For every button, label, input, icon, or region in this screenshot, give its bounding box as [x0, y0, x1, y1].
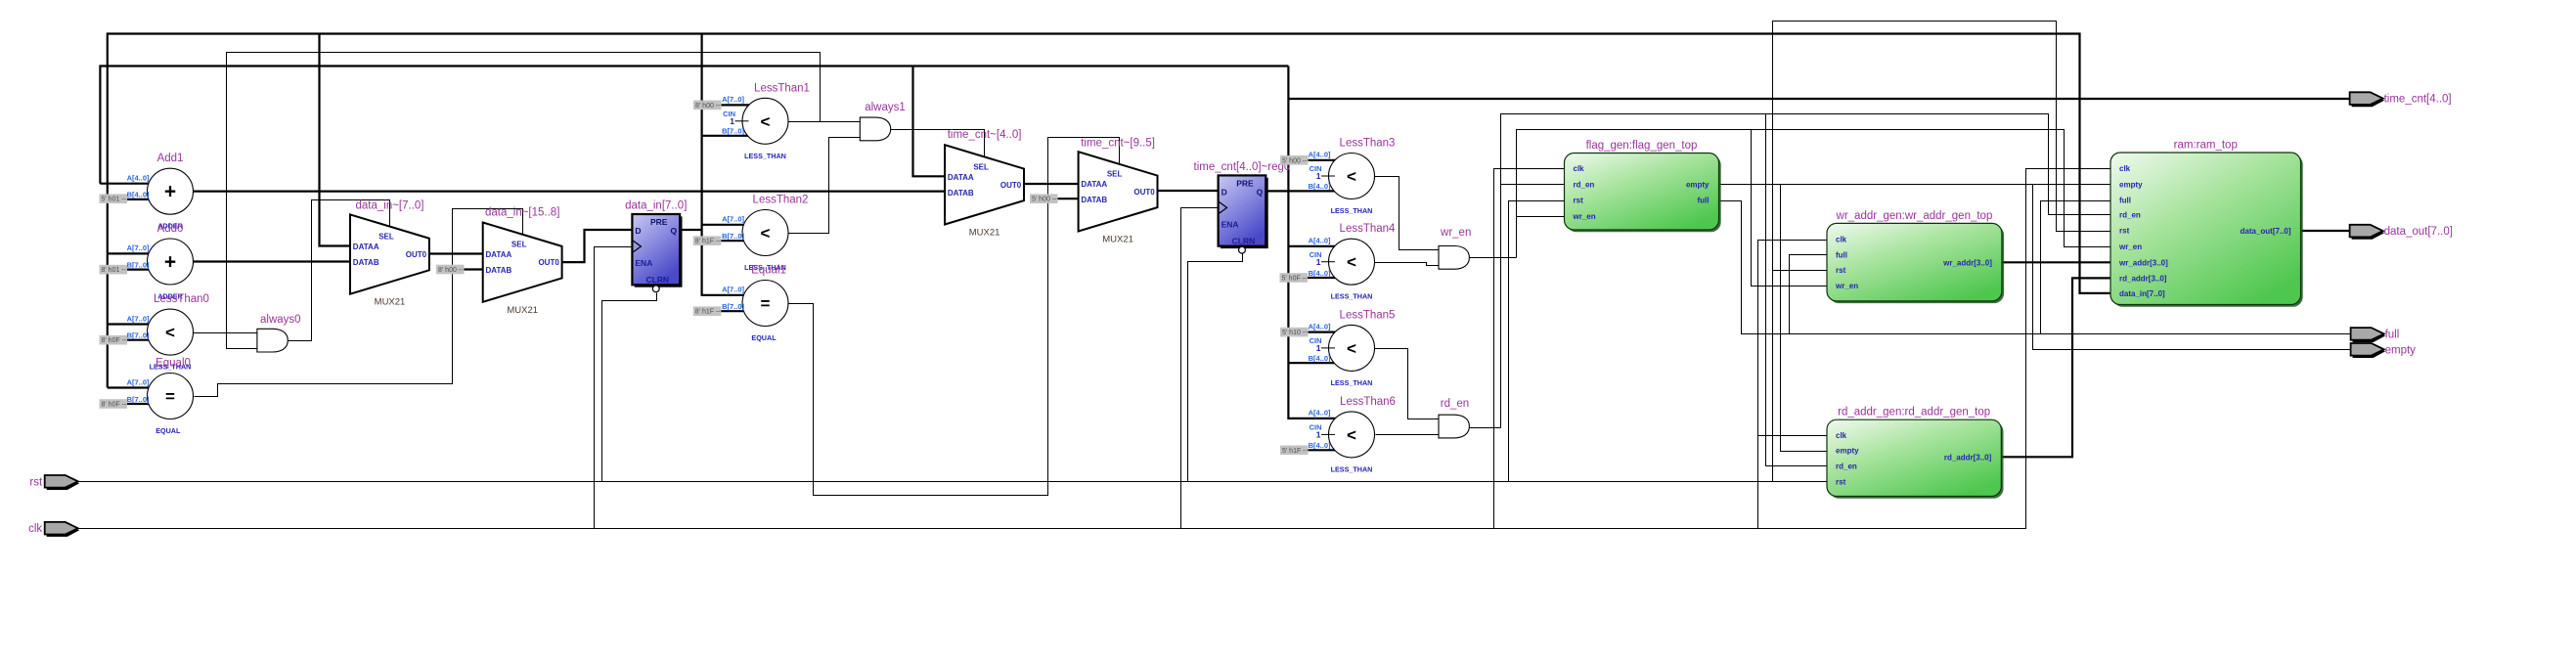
svg-text:LESS_THAN: LESS_THAN: [744, 152, 786, 160]
wire const 5h10 to LessThan5 A: [1308, 331, 1345, 333]
svg-text:A[4..0]: A[4..0]: [1309, 322, 1331, 330]
input pin rst: [29, 475, 79, 490]
wire wr_en bridge to ram wr_en: [1517, 130, 2111, 258]
svg-text:B[4..0]: B[4..0]: [1309, 269, 1331, 278]
wire LessThan5 out to rd_en gate input A: [1375, 349, 1440, 419]
svg-text:wr_addr_gen:wr_addr_gen_top: wr_addr_gen:wr_addr_gen_top: [1836, 210, 1993, 222]
wire const 5h00 to mux4 DATAB: [1057, 198, 1080, 199]
wire const 8h00 to mux2 DATAB: [464, 268, 484, 270]
svg-text:OUT0: OUT0: [1000, 181, 1022, 190]
wire rd_addr[3..0] bus to ram: [2002, 278, 2111, 457]
svg-text:data_in[7..0]: data_in[7..0]: [625, 200, 687, 212]
wire Equal0 out to mux2 SEL: [195, 209, 523, 397]
svg-text:5' h0F --: 5' h0F --: [1282, 276, 1309, 283]
svg-text:rst: rst: [1574, 197, 1584, 205]
svg-text:LESS_THAN: LESS_THAN: [1331, 206, 1373, 215]
svg-text:A[7..0]: A[7..0]: [722, 215, 744, 224]
svg-text:LessThan0: LessThan0: [154, 293, 209, 305]
svg-text:5' h1F --: 5' h1F --: [1282, 448, 1309, 455]
svg-text:LessThan3: LessThan3: [1340, 138, 1396, 150]
port labels LessThan5: [1309, 322, 1335, 363]
svg-text:<: <: [1347, 425, 1356, 444]
wire empty drop to rd_addr_gen empty: [1781, 185, 1828, 452]
svg-text:empty: empty: [1836, 447, 1859, 456]
svg-text:data_out[7..0]: data_out[7..0]: [2384, 226, 2453, 238]
constant 5h01 for Add1 B: [100, 194, 128, 203]
wire time_cnt to output pin: [1288, 98, 2350, 100]
svg-text:5' h00 --: 5' h00 --: [1032, 197, 1057, 203]
svg-text:5' h10 --: 5' h10 --: [1282, 330, 1308, 336]
wire clk trunk from input pin to ram clk: [79, 169, 2111, 529]
svg-text:PRE: PRE: [650, 217, 668, 227]
svg-text:clk: clk: [2119, 164, 2131, 173]
wire stub to LessThan1 B: [702, 135, 757, 137]
svg-text:ram:ram_top: ram:ram_top: [2174, 140, 2238, 152]
svg-text:A[7..0]: A[7..0]: [722, 95, 744, 104]
svg-text:PRE: PRE: [1236, 178, 1254, 188]
mux data_in~[15..8]: [483, 206, 562, 315]
wire mux2 OUT0 to data_in reg D: [562, 230, 633, 262]
svg-text:A[4..0]: A[4..0]: [1309, 409, 1331, 418]
comparator LessThan0: [148, 293, 209, 372]
svg-text:8' h0F --: 8' h0F --: [102, 402, 128, 409]
svg-text:LessThan6: LessThan6: [1340, 396, 1396, 408]
svg-text:1: 1: [1316, 257, 1321, 267]
svg-text:EQUAL: EQUAL: [751, 333, 777, 342]
wire flag_gen full to output pin full: [1720, 201, 2351, 334]
svg-text:B[4..0]: B[4..0]: [1309, 441, 1331, 450]
svg-text:rd_addr[3..0]: rd_addr[3..0]: [2119, 274, 2167, 283]
svg-text:ENA: ENA: [1221, 219, 1239, 229]
svg-text:<: <: [1347, 339, 1356, 358]
wire const 8h01 to Add0 B: [126, 269, 162, 271]
svg-text:rd_en: rd_en: [2119, 210, 2141, 219]
svg-text:DATAB: DATAB: [948, 189, 974, 198]
svg-text:Add0: Add0: [157, 223, 184, 235]
svg-text:rd_addr[3..0]: rd_addr[3..0]: [1944, 453, 1992, 462]
svg-text:Q: Q: [1257, 187, 1264, 197]
wire const 5h1F to LessThan6 B: [1308, 449, 1345, 451]
svg-text:rd_en: rd_en: [1441, 398, 1469, 410]
wire LessThan2 out to always1 input B: [789, 138, 861, 234]
wire stub to LessThan4 A: [1288, 245, 1344, 247]
wire LessThan3 out to wr_en gate input A: [1375, 177, 1440, 250]
module rd_addr_gen:rd_addr_gen_top: [1827, 407, 2004, 499]
comparator LessThan6: [1329, 396, 1396, 474]
svg-text:SEL: SEL: [1107, 169, 1123, 178]
svg-text:5' h01 --: 5' h01 --: [102, 197, 127, 203]
svg-text:wr_en: wr_en: [1573, 212, 1596, 221]
wire LessThan4 out to wr_en gate input B: [1375, 263, 1440, 266]
wire time_cnt right bus drop (reg0 Q / LessThan A-B stubs): [1288, 66, 1344, 419]
wire data bus stub to LessThan0 A: [108, 323, 161, 325]
svg-text:1: 1: [730, 116, 734, 126]
wire const 8h0F to LessThan0 B: [126, 339, 162, 341]
svg-text:8' h00 --: 8' h00 --: [438, 267, 464, 274]
svg-text:data_in~[15..8]: data_in~[15..8]: [485, 206, 559, 218]
port labels LessThan1: [722, 95, 748, 135]
svg-text:wr_addr[3..0]: wr_addr[3..0]: [1942, 258, 1992, 267]
wire mux3 OUT0 to mux4 DATAA: [1024, 183, 1079, 185]
svg-text:data_in~[7..0]: data_in~[7..0]: [355, 199, 423, 211]
wire full riser to wr_addr_gen full: [1790, 255, 1828, 334]
svg-text:8' h01 --: 8' h01 --: [102, 267, 127, 274]
svg-text:data_out[7..0]: data_out[7..0]: [2240, 227, 2290, 236]
port labels LessThan6: [1309, 409, 1335, 450]
svg-text:LessThan4: LessThan4: [1340, 223, 1397, 235]
svg-text:wr_en: wr_en: [1835, 282, 1858, 290]
and gate rd_en: [1439, 398, 1469, 438]
svg-text:always1: always1: [865, 102, 906, 113]
wire Equal1 out to mux4 SEL: [789, 138, 1120, 496]
port labels LessThan2: [722, 215, 744, 241]
wire ram data_out to output pin: [2301, 230, 2351, 232]
svg-text:MUX21: MUX21: [375, 297, 406, 308]
wire always1 out to mux3 SEL: [891, 130, 985, 158]
comparator Equal1: [742, 265, 788, 343]
svg-text:+: +: [164, 181, 176, 203]
svg-text:OUT0: OUT0: [538, 258, 559, 267]
svg-text:LessThan2: LessThan2: [753, 195, 809, 206]
svg-text:empty: empty: [2119, 180, 2143, 189]
svg-text:DATAB: DATAB: [1081, 196, 1107, 204]
wire rd_en to flag_gen rd_en: [1501, 184, 1566, 186]
wire LessThan0 out to always0 input A: [171, 332, 258, 334]
svg-text:B[4..0]: B[4..0]: [127, 191, 150, 199]
svg-text:8' h0F --: 8' h0F --: [102, 337, 128, 344]
wire data bus stub to Add0 A: [108, 252, 161, 254]
port labels Add0: [127, 243, 150, 269]
wire const 8h1F to LessThan2 B: [721, 240, 758, 242]
svg-text:SEL: SEL: [973, 162, 989, 171]
svg-text:rd_en: rd_en: [1836, 463, 1857, 471]
output pin empty: [2351, 343, 2417, 358]
svg-text:1: 1: [1316, 343, 1321, 353]
comparator LessThan2: [742, 195, 808, 273]
svg-text:B[7..0]: B[7..0]: [722, 232, 744, 241]
svg-text:clk: clk: [1836, 431, 1847, 440]
svg-text:SEL: SEL: [511, 241, 527, 249]
svg-text:A[7..0]: A[7..0]: [127, 314, 150, 323]
svg-text:=: =: [165, 387, 175, 406]
wire mux4 OUT0 to time_cnt reg0 D: [1158, 190, 1219, 192]
svg-text:MUX21: MUX21: [1102, 235, 1133, 245]
port labels Equal0: [127, 377, 150, 404]
wire time_cnt reg0 CLRN to rst: [1188, 254, 1243, 482]
constant 5h00 for LessThan3 A: [1280, 155, 1309, 165]
wire time_cnt drop to mux time_cnt~[4..0] DATAA: [913, 66, 946, 177]
svg-text:CLRN: CLRN: [1232, 236, 1256, 245]
port labels LessThan4: [1309, 237, 1335, 278]
svg-text:OUT0: OUT0: [406, 250, 427, 259]
svg-text:D: D: [1221, 187, 1227, 197]
constant 5h10 for LessThan5 A: [1280, 328, 1309, 337]
svg-text:rst: rst: [1836, 266, 1846, 275]
wire flag_gen empty to ram empty: [1720, 184, 2111, 186]
svg-text:=: =: [761, 294, 771, 313]
wire data_in reg CLRN to rst: [602, 293, 657, 482]
wire mux1 OUT0 to mux2 DATAA: [429, 252, 483, 254]
svg-text:OUT0: OUT0: [1133, 188, 1155, 197]
svg-text:CLRN: CLRN: [645, 275, 669, 285]
port labels LessThan0: [127, 314, 150, 339]
svg-text:A[7..0]: A[7..0]: [127, 377, 150, 386]
adder Add0: [148, 223, 194, 301]
constant 5h00 for mux4 DATAB: [1030, 194, 1058, 203]
svg-text:SEL: SEL: [378, 233, 394, 242]
svg-text:full: full: [2119, 197, 2131, 205]
module flag_gen:flag_gen_top: [1565, 140, 1721, 232]
svg-text:rd_en: rd_en: [1574, 180, 1595, 189]
wire clk riser to time_cnt reg0 clock: [1181, 208, 1220, 529]
comparator LessThan5: [1329, 309, 1396, 387]
svg-text:clk: clk: [1574, 164, 1585, 173]
register time_cnt[4..0]~reg0: [1194, 161, 1291, 253]
svg-text:data_in[7..0]: data_in[7..0]: [2119, 289, 2165, 298]
mux time_cnt~[4..0]: [945, 129, 1024, 239]
wire data bus: top trunk y34 with left column drop and ram data_in drop: [108, 34, 2111, 388]
register data_in[7..0]: [625, 200, 687, 292]
wire time_cnt reg0 Q to bus and LessThan3 B: [1266, 190, 1344, 192]
svg-text:A[4..0]: A[4..0]: [1309, 151, 1331, 159]
wire data bus drop right column (LessThan1 B / LessThan2 A / Equal1 A): [702, 34, 757, 295]
svg-text:wr_en: wr_en: [1440, 227, 1471, 239]
comparator Equal0: [148, 358, 194, 436]
and gate always1: [860, 102, 905, 141]
svg-text:A[7..0]: A[7..0]: [127, 243, 150, 252]
svg-text:flag_gen:flag_gen_top: flag_gen:flag_gen_top: [1586, 140, 1698, 152]
wire always0 out to mux1 SEL: [289, 200, 390, 341]
mux data_in~[7..0]: [350, 199, 429, 307]
svg-text:1: 1: [1316, 430, 1321, 440]
wire time_cnt trunk y67 with drop to Add1 A: [100, 66, 1288, 184]
svg-text:DATAA: DATAA: [1081, 180, 1107, 189]
wire rst bridge over top to ram rst: [1773, 22, 2111, 482]
svg-text:D: D: [635, 226, 641, 236]
svg-text:A[4..0]: A[4..0]: [1309, 237, 1331, 245]
svg-text:full: full: [2385, 329, 2400, 340]
port labels LessThan3: [1309, 151, 1335, 192]
wire clk riser to data_in reg clock: [595, 247, 633, 529]
svg-text:B[7..0]: B[7..0]: [722, 127, 744, 136]
svg-text:DATAA: DATAA: [486, 250, 512, 259]
mux time_cnt~[9..5]: [1079, 137, 1158, 244]
svg-text:time_cnt~[9..5]: time_cnt~[9..5]: [1081, 137, 1155, 149]
svg-text:LESS_THAN: LESS_THAN: [1331, 464, 1373, 473]
constant 8h0F for LessThan0 B: [100, 335, 128, 345]
wire data bus stub to Equal0 A: [108, 386, 161, 388]
svg-text:B[4..0]: B[4..0]: [1309, 354, 1331, 363]
constant 8h00 for LessThan1 A: [693, 101, 722, 110]
port labels Equal1: [722, 286, 744, 311]
svg-text:wr_en: wr_en: [2118, 242, 2142, 251]
wire stub to LessThan5 B: [1288, 362, 1344, 364]
svg-text:1: 1: [1316, 171, 1321, 181]
svg-text:DATAB: DATAB: [486, 266, 512, 275]
constant 8h1F for LessThan2 B: [693, 236, 722, 245]
wire LessThan6 out to rd_en gate input B: [1376, 434, 1440, 436]
svg-text:<: <: [1347, 253, 1356, 272]
svg-text:Equal0: Equal0: [155, 358, 191, 370]
svg-text:wr_addr[3..0]: wr_addr[3..0]: [2118, 258, 2168, 267]
wire clk stub to rd_addr_gen clk: [1758, 435, 1828, 437]
comparator LessThan3: [1329, 138, 1396, 216]
svg-text:always0: always0: [260, 314, 301, 326]
svg-text:empty: empty: [1686, 180, 1710, 189]
wire stub to Add1 A: [100, 183, 161, 185]
comparator LessThan1: [742, 82, 810, 160]
wire const 5h00 to LessThan3 A: [1308, 159, 1345, 161]
svg-text:LESS_THAN: LESS_THAN: [1331, 378, 1373, 387]
wire wr_en gate output: [1470, 257, 1517, 259]
svg-text:DATAA: DATAA: [948, 173, 974, 182]
svg-text:A[7..0]: A[7..0]: [722, 286, 744, 294]
svg-text:<: <: [761, 224, 771, 242]
svg-text:LESS_THAN: LESS_THAN: [1331, 292, 1373, 301]
constant 8h01 for Add0 B: [100, 265, 128, 275]
constant 8h1F for Equal1 B: [693, 306, 722, 316]
svg-text:empty: empty: [2385, 344, 2417, 356]
svg-text:rst: rst: [2119, 227, 2130, 236]
svg-text:DATAA: DATAA: [353, 242, 379, 251]
wire const 8h1F to Equal1 B: [721, 310, 758, 312]
svg-text:8' h1F --: 8' h1F --: [695, 309, 722, 316]
constant 5h0F for LessThan4 B: [1280, 273, 1309, 283]
wire LessThan1 out branch to always0 input B: [227, 53, 821, 349]
svg-text:<: <: [165, 324, 175, 342]
svg-text:5' h00 --: 5' h00 --: [1282, 157, 1308, 164]
svg-text:B[7..0]: B[7..0]: [722, 302, 744, 311]
svg-text:LessThan5: LessThan5: [1340, 309, 1396, 321]
wire Add1 out to mux time_cnt~[4..0] DATAB: [170, 191, 946, 193]
wire wr_addr[3..0] bus to ram: [2002, 261, 2111, 263]
output pin data_out[7..0]: [2350, 225, 2453, 240]
wire LessThan1 out to always1 input A: [789, 121, 861, 123]
svg-text:MUX21: MUX21: [507, 305, 538, 316]
svg-text:<: <: [1347, 167, 1356, 186]
wire full riser to ram full: [2041, 201, 2111, 334]
module ram:ram_top: [2110, 140, 2303, 307]
and gate wr_en: [1439, 227, 1471, 269]
wire rst riser to flag_gen rst: [1509, 201, 1566, 482]
svg-text:full: full: [1836, 250, 1847, 259]
wire Add0 out to mux1 DATAB: [170, 260, 351, 262]
constant 5h1F for LessThan6 B: [1280, 446, 1309, 456]
constant 8h00 for mux2 DATAB: [436, 265, 465, 275]
wire empty drop to output pin empty: [2033, 185, 2351, 350]
svg-text:clk: clk: [1836, 236, 1847, 244]
wire rd_en gate output: [1470, 427, 1501, 429]
wire const 5h01 to Add1 B: [126, 198, 162, 200]
svg-text:time_cnt~[4..0]: time_cnt~[4..0]: [948, 129, 1022, 141]
svg-text:DATAB: DATAB: [353, 258, 379, 267]
svg-text:time_cnt[4..0]: time_cnt[4..0]: [2384, 94, 2452, 106]
wire const 8h0F to Equal0 B: [126, 403, 162, 405]
wire data bus drop to mux DATAA: [320, 34, 351, 246]
svg-text:A[4..0]: A[4..0]: [127, 174, 150, 183]
svg-text:B[7..0]: B[7..0]: [127, 331, 150, 340]
module wr_addr_gen:wr_addr_gen_top: [1827, 210, 2004, 303]
output pin time_cnt[4..0]: [2350, 92, 2452, 107]
svg-text:rd_addr_gen:rd_addr_gen_top: rd_addr_gen:rd_addr_gen_top: [1838, 407, 1990, 419]
svg-text:full: full: [1698, 197, 1710, 205]
svg-text:<: <: [761, 112, 771, 131]
and gate always0: [257, 314, 301, 352]
svg-text:+: +: [164, 251, 176, 274]
wire stub to LessThan2 A: [702, 224, 757, 226]
wire clk riser to wr_addr_gen clk: [1758, 241, 1828, 529]
wire const 8h00 to LessThan1 A: [721, 104, 758, 106]
wire rd_en drop to rd_addr_gen rd_en: [1766, 114, 1828, 466]
wire wr_en to flag_gen wr_en: [1517, 216, 1566, 218]
svg-text:B[4..0]: B[4..0]: [1309, 182, 1331, 191]
svg-text:Equal1: Equal1: [751, 265, 786, 277]
wire const 5h0F to LessThan4 B: [1308, 277, 1345, 279]
svg-text:B[7..0]: B[7..0]: [127, 260, 150, 269]
adder Add1: [148, 153, 194, 231]
svg-text:8' h1F --: 8' h1F --: [695, 239, 722, 245]
svg-text:EQUAL: EQUAL: [155, 426, 181, 435]
svg-text:MUX21: MUX21: [969, 228, 1000, 239]
input pin clk: [28, 522, 79, 537]
wire rst trunk from input pin to rd_addr_gen rst: [79, 481, 1828, 483]
svg-text:rst: rst: [29, 476, 43, 488]
svg-text:LessThan1: LessThan1: [754, 82, 810, 94]
constant 8h0F for Equal0 B: [100, 399, 128, 409]
wire wr_en drop to wr_addr_gen wr_en: [1752, 130, 1828, 286]
svg-text:rst: rst: [1836, 477, 1846, 486]
output pin full: [2351, 328, 2400, 342]
wire data_in reg Q to bus: [680, 229, 702, 231]
wire clk riser to flag_gen clk: [1494, 169, 1566, 529]
svg-text:Q: Q: [670, 226, 677, 236]
svg-text:8' h00 --: 8' h00 --: [695, 103, 721, 110]
svg-text:time_cnt[4..0]~reg0: time_cnt[4..0]~reg0: [1194, 161, 1291, 173]
svg-text:ENA: ENA: [635, 258, 652, 268]
svg-text:Add1: Add1: [157, 153, 184, 164]
svg-text:B[7..0]: B[7..0]: [127, 395, 150, 404]
comparator LessThan4: [1329, 223, 1397, 301]
wire rd_en bridge to ram rd_en: [1501, 114, 2111, 428]
port labels Add1: [127, 174, 150, 199]
svg-text:clk: clk: [28, 523, 42, 535]
wire rst stub to wr_addr_gen rst: [1773, 270, 1828, 272]
